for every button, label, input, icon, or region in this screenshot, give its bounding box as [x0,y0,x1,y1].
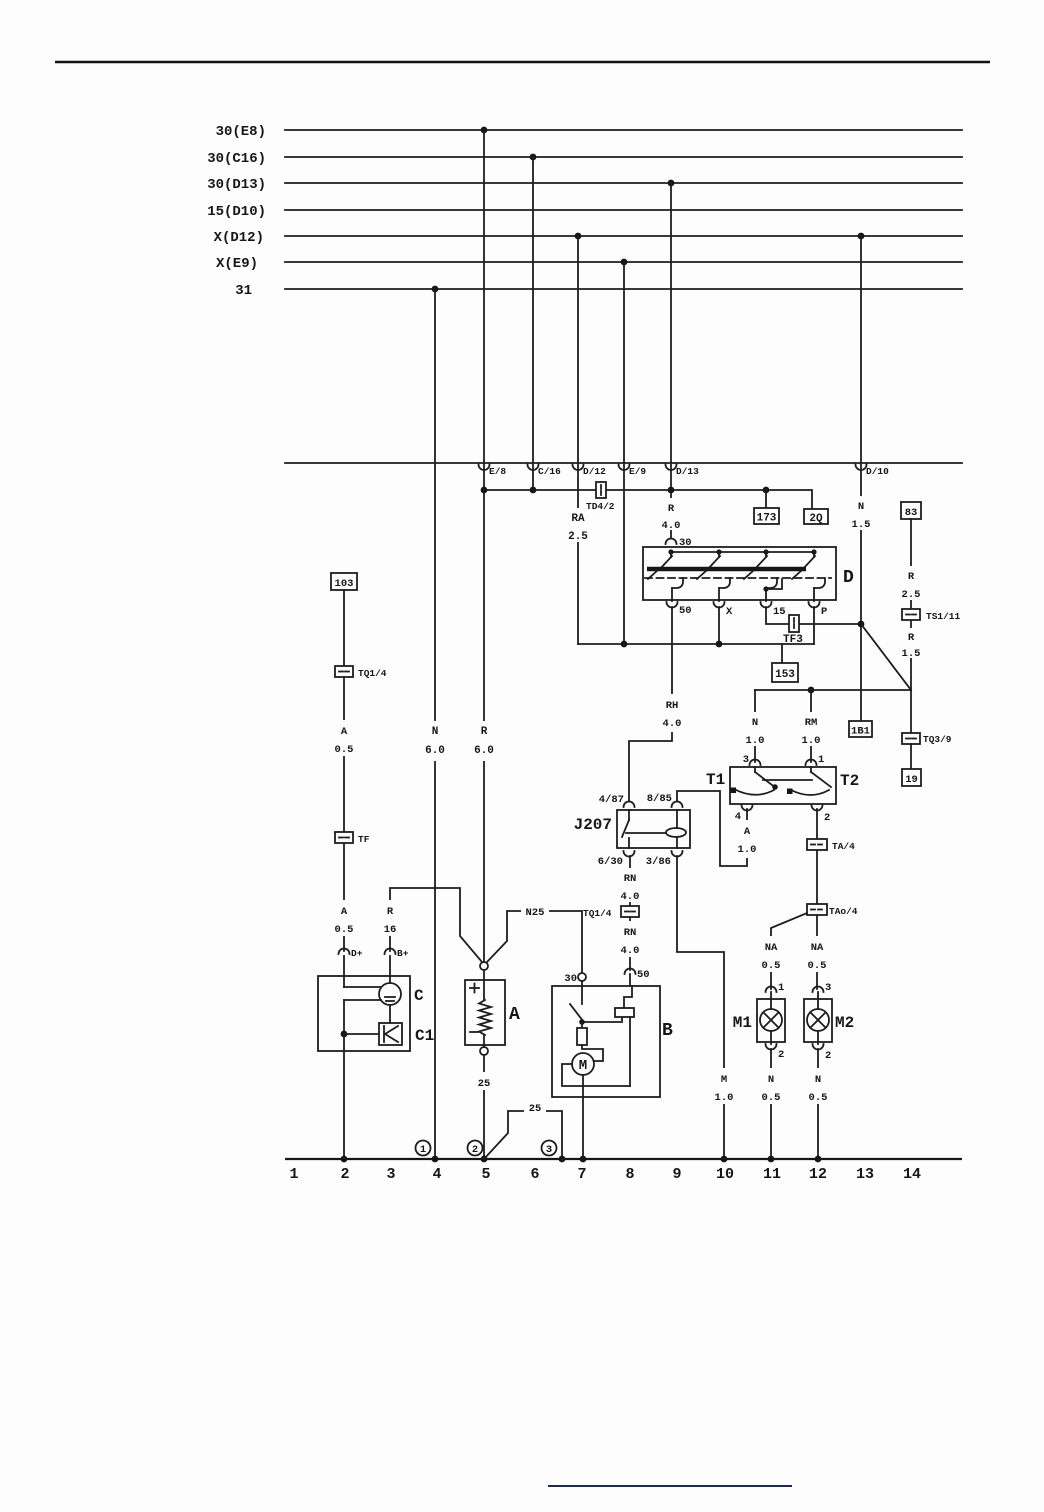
svg-text:N: N [768,1074,774,1086]
wire 30(D13) drop x671 to switch D pin30 [670,183,672,538]
svg-text:TAo/4: TAo/4 [829,906,858,917]
lamp M2 [804,982,854,1062]
svg-text:14: 14 [903,1166,921,1183]
svg-text:N: N [432,726,439,738]
label NA 0.5 [760,936,782,972]
junction 30(E8)/x484 [481,127,488,134]
svg-text:1.5: 1.5 [902,648,921,660]
svg-text:D/12: D/12 [583,466,606,477]
wire 6/30 to starter 50 [629,856,631,970]
label N 0.5 [808,1068,829,1104]
svg-text:X(E9): X(E9) [216,256,258,272]
svg-text:4.0: 4.0 [621,945,640,957]
svg-text:11: 11 [763,1166,781,1183]
wire 3/86 to earth rail [677,856,724,1159]
label 25 [524,1100,546,1115]
svg-text:12: 12 [809,1166,827,1183]
rail junction x583 [580,1156,587,1163]
svg-text:0.5: 0.5 [762,960,781,972]
svg-text:E/8: E/8 [489,466,506,477]
wire X/P splice y644 [578,643,814,645]
connector TQ1/4 [583,906,639,919]
label RN 4.0 [620,921,641,957]
svg-text:D/13: D/13 [676,466,699,477]
svg-text:RA: RA [571,513,585,525]
label N 6.0 [425,721,445,761]
label RA 2.5 [567,508,589,543]
label RN 4.0 [620,868,641,903]
pin 50 of D [667,602,692,617]
connector C/16 [528,465,562,478]
svg-text:50: 50 [637,969,650,981]
label N 0.5 [761,1068,782,1104]
svg-text:3: 3 [825,982,831,994]
svg-text:173: 173 [757,513,777,525]
svg-text:E/9: E/9 [629,466,646,477]
wire starter to earth rail [582,1097,584,1159]
wire diagonal to x913 [861,624,911,690]
label NA 0.5 [806,936,828,972]
label R 6.0 [474,721,494,761]
ground ref 20 [804,509,828,525]
svg-text:1: 1 [420,1144,426,1156]
svg-text:D: D [843,568,854,588]
label RM 1.0 [800,712,822,747]
svg-text:RN: RN [624,873,637,885]
svg-text:4.0: 4.0 [663,718,682,730]
svg-text:T1: T1 [706,771,725,789]
svg-text:TD4/2: TD4/2 [586,501,615,512]
svg-text:2: 2 [778,1049,784,1061]
bus 30(D13) [207,177,962,193]
battery A [465,970,520,1047]
wire M2 to earth rail [817,1049,819,1159]
label RH 4.0 [661,694,683,732]
svg-text:4/87: 4/87 [599,794,624,806]
junction TF3/N1.5 [858,621,865,628]
wire T2 pin2 to lamps [816,809,818,989]
svg-text:C: C [414,987,424,1005]
wire X(E9) drop x624 [623,262,625,644]
svg-text:TQ1/4: TQ1/4 [583,908,612,919]
svg-text:C1: C1 [415,1027,434,1045]
svg-text:4.0: 4.0 [662,520,681,532]
svg-text:25: 25 [478,1078,491,1090]
ground ref 83 [901,502,921,519]
label A 0.5 [334,720,355,756]
wire 103 to alternator D+ [343,590,345,951]
svg-text:X: X [726,606,733,618]
svg-text:X(D12): X(D12) [214,230,264,246]
svg-text:1: 1 [778,982,784,994]
svg-text:6.0: 6.0 [425,745,445,757]
svg-text:31: 31 [235,283,252,299]
connector TAo/4 [807,904,858,917]
svg-text:N: N [815,1074,821,1086]
junction x624 [621,641,628,648]
svg-text:A: A [341,906,348,918]
svg-text:30: 30 [679,537,692,549]
svg-text:B: B [662,1021,673,1041]
ground ref 173 [754,490,779,525]
bus 30(E8) [216,124,962,140]
starter motor B [552,986,673,1097]
pin X of D [714,602,734,618]
svg-text:3/86: 3/86 [646,856,671,868]
ground point 1 [416,1141,431,1157]
wire T2 pin1 [810,690,812,762]
junction X(D12)/x578 [575,233,582,240]
wire branch to lamp M1 [771,913,807,989]
svg-text:M1: M1 [733,1014,752,1032]
svg-text:19: 19 [905,774,918,786]
svg-text:1.0: 1.0 [738,844,757,856]
connector D/13 [666,465,700,478]
svg-text:M: M [579,1058,587,1074]
svg-text:N: N [752,717,758,729]
svg-text:N: N [858,501,864,513]
svg-text:NA: NA [765,942,778,954]
wire X(D12) drop x578 (RA 2.5) [577,236,579,644]
label M 1.0 [714,1068,735,1104]
svg-text:R: R [668,503,675,515]
label R 2.5 [901,566,921,601]
svg-text:R: R [908,632,915,644]
svg-text:5: 5 [481,1166,490,1183]
svg-text:4.0: 4.0 [621,891,640,903]
svg-text:C/16: C/16 [538,466,561,477]
svg-text:J207: J207 [574,816,612,834]
wire pin 15 to TF3 junction [766,607,861,624]
ground strap 25 [484,1111,562,1159]
wire 30(C16) drop x533 [532,157,534,490]
svg-text:13: 13 [856,1166,874,1183]
rail junction x435 [432,1156,439,1163]
svg-text:9: 9 [672,1166,681,1183]
label R 1.5 [901,628,921,660]
wire C1 to earth rail [343,1034,345,1159]
junction 31/x435 [432,286,439,293]
svg-text:R: R [481,726,488,738]
ground ref 153 [772,644,798,682]
wire X(D12) drop x861 (N 1.5) [860,236,862,721]
pin 15 of D [761,602,786,618]
connector TD4/2 [586,482,615,512]
earth rail [285,1158,962,1160]
rail junction x818 [815,1156,822,1163]
junction 30(D13)/x671 [668,180,675,187]
battery - terminal [480,1047,488,1055]
wire R16 from battery to B+ [390,888,482,962]
svg-text:TF: TF [358,834,370,845]
ground ref 103 [331,573,357,590]
svg-text:TQ3/9: TQ3/9 [923,734,952,745]
svg-text:1.5: 1.5 [852,519,871,531]
bus 30(C16) [207,151,962,167]
wire pin50 to relay 4/87 [629,607,672,801]
battery + terminal [480,962,488,970]
svg-text:M2: M2 [835,1014,854,1032]
wire T1 pin3 [754,690,756,762]
rail junction x771 [768,1156,775,1163]
svg-text:1: 1 [289,1166,298,1183]
connector TF3 [783,615,803,646]
label N 1.5 [851,496,871,531]
svg-text:A: A [744,826,751,838]
connector TF [335,832,370,845]
svg-text:10: 10 [716,1166,734,1183]
svg-text:3: 3 [546,1144,552,1156]
svg-text:3: 3 [386,1166,395,1183]
junction x671 [668,487,675,494]
svg-text:P: P [821,606,827,618]
pin 50 of starter [625,969,650,987]
svg-text:30: 30 [564,973,577,985]
svg-text:103: 103 [335,578,354,590]
pin P of D [809,602,828,618]
svg-text:A: A [509,1005,520,1025]
svg-text:8/85: 8/85 [647,793,672,805]
alternator C / regulator C1 [318,956,434,1051]
svg-text:0.5: 0.5 [808,960,827,972]
svg-text:8: 8 [625,1166,634,1183]
svg-text:2: 2 [472,1144,478,1156]
wire pin X down [718,607,720,644]
svg-text:2: 2 [340,1166,349,1183]
junction x766 [763,487,770,494]
svg-text:2: 2 [824,812,830,824]
svg-text:TS1/11: TS1/11 [926,611,961,622]
svg-text:D/10: D/10 [866,466,889,477]
svg-text:D+: D+ [351,948,363,959]
svg-text:7: 7 [577,1166,586,1183]
label N 1.0 [745,712,765,747]
ignition switch D [643,537,854,601]
rail junction x344 [341,1156,348,1163]
svg-text:A: A [341,726,348,738]
pin B+ [385,948,409,959]
junction X(E9)/x624 [621,259,628,266]
ground ref 1B1 [849,721,872,738]
rail junction x562 [559,1156,566,1163]
svg-text:RM: RM [805,717,818,729]
svg-text:RN: RN [624,927,637,939]
connector D/10 [856,465,890,478]
label A 1.0 [737,820,757,858]
connector TQ3/9 [902,733,952,745]
svg-text:RH: RH [666,700,679,712]
svg-text:0.5: 0.5 [335,744,354,756]
svg-text:25: 25 [529,1103,542,1115]
svg-text:2.5: 2.5 [568,531,588,543]
svg-text:6: 6 [530,1166,539,1183]
bus 15(D10) [207,204,962,220]
wire battery - to earth rail [483,1055,485,1159]
bus 31 [235,283,962,299]
rail junction x484 [481,1156,488,1163]
junction x811 [808,687,815,694]
label R 16 [380,900,401,936]
connector rail [285,462,962,464]
bus X(E9) [216,256,962,272]
wire N25 battery to starter 30 [487,911,582,972]
connector TS1/11 [902,609,961,622]
starter 30 terminal [564,973,586,986]
svg-text:TQ1/4: TQ1/4 [358,668,387,679]
wire x913 from 83 [910,519,912,609]
relay J207 [574,793,690,868]
label A 0.5 [334,900,355,936]
svg-text:T2: T2 [840,772,859,790]
connector E/8 [479,465,507,478]
svg-text:0.5: 0.5 [762,1092,781,1104]
svg-text:0.5: 0.5 [335,924,354,936]
label R 4.0 [661,498,681,532]
svg-text:NA: NA [811,942,824,954]
svg-text:TA/4: TA/4 [832,841,855,852]
svg-text:3: 3 [743,754,749,766]
junction x484 [481,487,488,494]
svg-text:30(E8): 30(E8) [216,124,266,140]
connector TA/4 [807,839,855,852]
svg-text:1.0: 1.0 [715,1092,734,1104]
ground ref 19 [902,769,921,786]
svg-text:1.0: 1.0 [802,735,821,747]
junction 30(C16)/x533 [530,154,537,161]
label N25 [521,903,549,919]
svg-text:4: 4 [432,1166,441,1183]
wire y690 to T1/T2 [755,689,911,691]
flasher unit T1 T2 [706,754,859,824]
svg-text:2: 2 [825,1050,831,1062]
junction X(D12)/x861 [858,233,865,240]
wire T1 pin4 to relay 8/85 [677,791,747,866]
pin D+ [339,948,363,959]
svg-text:1.0: 1.0 [746,735,765,747]
svg-text:30(C16): 30(C16) [207,151,266,167]
svg-text:15: 15 [773,606,786,618]
svg-text:1B1: 1B1 [851,726,870,738]
svg-text:50: 50 [679,605,692,617]
svg-text:2.5: 2.5 [902,589,921,601]
svg-text:153: 153 [775,669,795,681]
wire 31 drop x435 [434,289,436,1159]
wire 30(E8) drop x484 to battery [483,130,485,961]
lamp M1 [733,982,785,1061]
svg-text:6.0: 6.0 [474,745,494,757]
splice wire y490 [484,490,812,509]
label 25 [474,1072,495,1090]
wire M1 to earth rail [770,1049,772,1159]
ground point 3 [542,1141,557,1157]
svg-text:16: 16 [384,924,397,936]
svg-text:1: 1 [818,754,824,766]
svg-text:83: 83 [905,507,918,519]
rail junction x724 [721,1156,728,1163]
svg-text:6/30: 6/30 [598,856,623,868]
svg-text:N25: N25 [526,907,545,919]
svg-text:30(D13): 30(D13) [207,177,266,193]
connector D/12 [573,465,607,478]
junction x719 [716,641,723,648]
bus X(D12) [214,230,962,246]
svg-text:2Q: 2Q [809,513,823,525]
svg-text:15(D10): 15(D10) [207,204,266,220]
svg-text:R: R [908,571,915,583]
page footer rule [548,1485,792,1487]
junction x533 [530,487,537,494]
svg-text:R: R [387,906,394,918]
ground point 2 [468,1141,483,1157]
connector E/9 [619,465,647,478]
wire pin P down [813,607,815,644]
svg-text:0.5: 0.5 [809,1092,828,1104]
svg-text:B+: B+ [397,948,409,959]
wire to ref 19 [910,744,912,769]
svg-text:M: M [721,1074,727,1086]
connector TQ1/4 [335,666,387,679]
page top rule [55,61,990,64]
